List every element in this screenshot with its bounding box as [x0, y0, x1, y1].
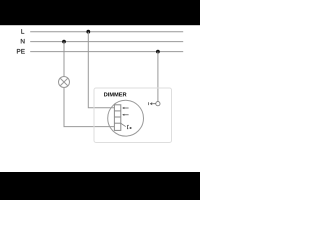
terminal block: [114, 105, 120, 131]
dimmer enclosure box: [94, 88, 172, 143]
wire N to lamp: [63, 42, 65, 77]
symbol t (time label): [127, 125, 129, 129]
wire PE junction to push button: [157, 52, 159, 102]
junction on PE: [156, 50, 160, 54]
wire N bus line: [30, 41, 183, 43]
wire lamp to dimmer terminal 4: [64, 88, 114, 127]
node L label: [21, 29, 24, 33]
wire L to dimmer terminal 1: [88, 32, 114, 108]
junction on L: [86, 30, 90, 34]
pointer line to t symbol: [121, 123, 126, 126]
arrow into terminal 1: [122, 107, 128, 109]
node N label: [21, 39, 25, 43]
wire PE bus line: [30, 51, 183, 53]
node PE label: [17, 49, 25, 53]
letterbox bar bottom: [0, 172, 200, 200]
dimmer body circle U1: [108, 100, 144, 136]
lamp E1: [59, 77, 70, 88]
letterbox bar top: [0, 0, 200, 25]
push button S1: [149, 102, 160, 106]
label DIMMER: [104, 93, 126, 97]
junction on N: [62, 40, 66, 44]
arrow into terminal 2: [122, 114, 128, 116]
wire L bus line: [30, 31, 183, 33]
